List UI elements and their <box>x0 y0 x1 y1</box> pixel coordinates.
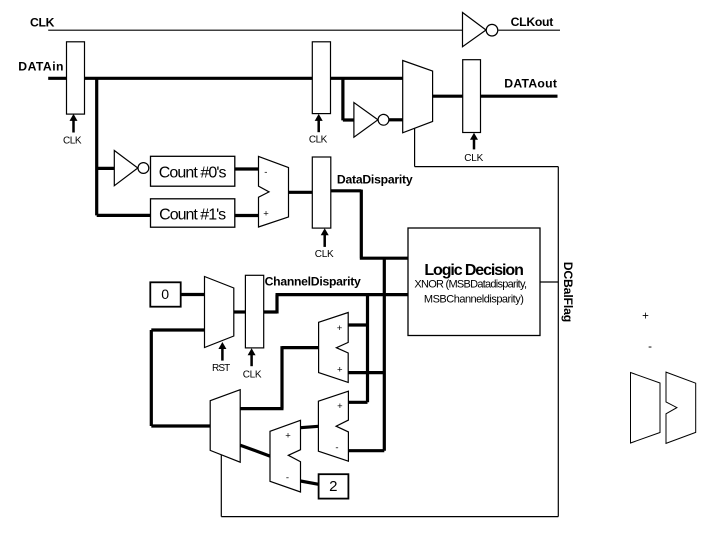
wire DCBalFlag vertical <box>557 167 559 517</box>
wire into Count #1's <box>97 214 151 217</box>
wire mux M1 out to register R3 <box>433 95 463 98</box>
svg-text:ChannelDisparity: ChannelDisparity <box>265 275 361 289</box>
wire 2 box to adder A3 <box>301 481 319 484</box>
wire R2 to mux M1 <box>331 77 403 80</box>
constant box 0 <box>150 282 180 306</box>
wire adder A1 top input <box>348 323 367 326</box>
wire CLK line <box>48 29 462 31</box>
register R3 (DATAout) <box>463 60 481 133</box>
wire ChannelDisparity branch down to adders <box>366 295 369 403</box>
mux M2 (channel disparity reset mux) <box>205 277 234 348</box>
adder ALU A2 (Channel-Data) <box>318 391 348 461</box>
block Count #0's <box>151 156 235 186</box>
register R1 (DATAin) <box>67 42 85 114</box>
svg-text:0: 0 <box>161 286 169 302</box>
inverter U3 bubble <box>378 114 389 125</box>
wire Logic Decision output <box>540 281 558 283</box>
inverter U1 bubble <box>486 24 498 36</box>
legend adder symbol <box>666 372 696 443</box>
block Logic Decision <box>408 228 540 336</box>
mux M1 (output mux) <box>403 61 433 133</box>
wire adder A2 bottom input <box>348 449 384 452</box>
inverter U1 (CLKout) <box>463 13 487 47</box>
reset arrow M2 <box>218 342 226 349</box>
svg-text:XNOR (MSBDatadisparity,: XNOR (MSBDatadisparity, <box>414 279 527 291</box>
svg-text:DATAout: DATAout <box>504 77 557 91</box>
svg-text:DATAin: DATAin <box>18 60 63 74</box>
wire inverter U3 out to mux M1 <box>389 118 403 121</box>
svg-text:MSBChanneldisparity): MSBChanneldisparity) <box>424 293 524 305</box>
wire CLKout line <box>498 29 560 31</box>
svg-text:Logic Decision: Logic Decision <box>424 262 523 279</box>
wire DATAout <box>481 95 558 98</box>
svg-text:-: - <box>286 472 289 483</box>
adder-subtractor ALU1 (Count#0 - Count#1) <box>259 156 289 227</box>
wire 0 box to mux M2 <box>181 293 205 296</box>
svg-text:RST: RST <box>212 363 230 374</box>
clock arrow R2 <box>315 114 323 121</box>
svg-text:+: + <box>285 430 291 441</box>
wire branch to inverter U3 <box>343 78 354 120</box>
mux M3 (disparity select mux) <box>210 390 240 463</box>
wire DCBalFlag bottom horizontal <box>221 516 558 518</box>
clock arrow R3 <box>470 133 478 140</box>
clock arrow R4 <box>321 228 329 235</box>
adder ALU A3 (minus 2) <box>270 420 301 492</box>
svg-text:CLKout: CLKout <box>511 15 554 29</box>
wire branch down at x=96.7 <box>95 78 98 215</box>
wire subtractor out to register R4 <box>289 191 313 194</box>
svg-text:Count #1's: Count #1's <box>159 206 226 223</box>
svg-text:CLK: CLK <box>30 15 55 29</box>
wire Count #0's to subtractor <box>235 167 259 170</box>
svg-text:+: + <box>642 310 649 322</box>
svg-text:+: + <box>337 401 343 412</box>
wire ChannelDisparity net R5 to Logic Decision <box>264 295 408 314</box>
svg-text:+: + <box>263 209 269 220</box>
clock arrow R1 <box>70 114 78 121</box>
inverter U3 (before mux M1) <box>354 103 378 138</box>
inverter U2 (before Count #0's) <box>114 151 138 186</box>
inverter U2 bubble <box>138 163 149 174</box>
wire DataDisparity branch down to adders <box>383 258 386 451</box>
wire mux M3 select feedback <box>220 455 222 517</box>
adder ALU A1 (Channel+Data) <box>319 313 349 383</box>
wire mux M1 select feedback <box>415 128 559 166</box>
wire mux M2 out to register R5 <box>234 310 246 313</box>
svg-text:-: - <box>264 167 267 178</box>
svg-text:-: - <box>648 341 652 353</box>
clock arrow R5 <box>248 348 256 355</box>
wire DATAin into register R1 <box>48 77 66 80</box>
wire adder A1 bottom input <box>348 371 384 374</box>
svg-text:CLK: CLK <box>243 370 262 381</box>
svg-text:DataDisparity: DataDisparity <box>337 173 413 187</box>
wire adder A3 out to mux M3 <box>240 445 270 456</box>
svg-text:+: + <box>337 364 343 375</box>
svg-text:CLK: CLK <box>464 153 483 164</box>
svg-text:Count #0's: Count #0's <box>159 164 227 181</box>
wire adder A2 top input <box>348 401 367 404</box>
wire feedback loop to mux M2 <box>151 330 210 426</box>
svg-text:CLK: CLK <box>315 249 334 260</box>
register R5 (ChannelDisparity) <box>245 275 263 348</box>
wire adder A2 out to adder A3 <box>301 426 319 427</box>
svg-text:2: 2 <box>329 478 337 495</box>
wire adder A1 out to mux M3 <box>240 346 318 409</box>
svg-text:CLK: CLK <box>63 136 82 147</box>
constant box 2 <box>319 474 349 498</box>
block Count #1's <box>151 199 235 227</box>
svg-text:+: + <box>337 323 343 334</box>
svg-text:CLK: CLK <box>309 135 328 146</box>
svg-text:DCBalFlag: DCBalFlag <box>561 262 575 323</box>
svg-text:-: - <box>335 443 338 454</box>
legend mux symbol <box>631 373 661 444</box>
register R2 <box>312 42 330 114</box>
wire R1 to R2 <box>85 77 313 80</box>
register R4 (DataDisparity) <box>312 157 331 228</box>
wire Count #1's to subtractor <box>235 214 259 217</box>
wire DataDisparity net R4 to Logic Decision <box>331 190 408 259</box>
wire into inverter U2 <box>97 167 115 170</box>
